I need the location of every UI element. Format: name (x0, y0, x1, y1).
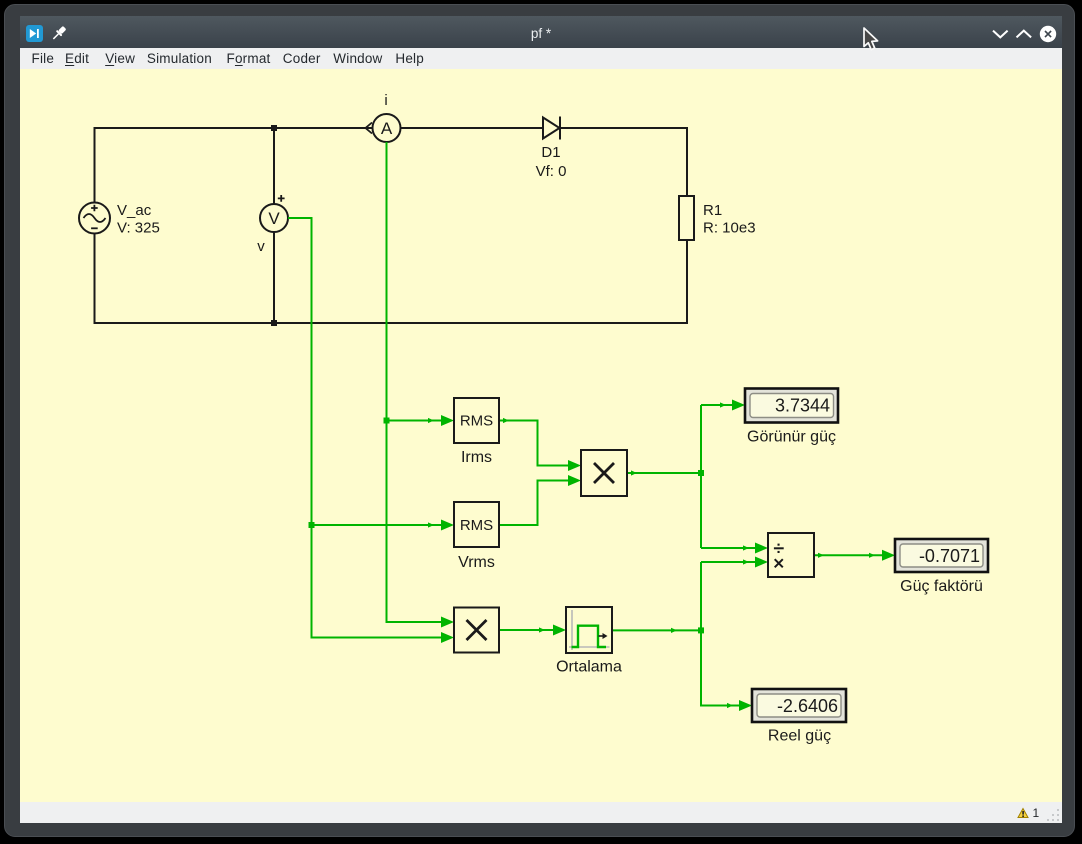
svg-text:3.7344: 3.7344 (775, 396, 830, 416)
svg-text:R1: R1 (703, 202, 722, 219)
svg-text:D1: D1 (541, 144, 560, 161)
svg-text:Vf: 0: Vf: 0 (536, 163, 567, 180)
svg-text:-0.7071: -0.7071 (919, 546, 980, 566)
svg-text:A: A (381, 119, 393, 138)
svg-text:Vrms: Vrms (458, 554, 495, 571)
svg-text:Ortalama: Ortalama (556, 659, 622, 676)
svg-text:V: 325: V: 325 (117, 220, 160, 237)
svg-text:Görünür güç: Görünür güç (747, 429, 836, 446)
svg-text:V_ac: V_ac (117, 202, 152, 219)
svg-text:Irms: Irms (461, 449, 492, 466)
svg-text:v: v (257, 238, 265, 255)
svg-text:RMS: RMS (460, 517, 493, 534)
svg-text:R: 10e3: R: 10e3 (703, 220, 756, 237)
svg-text:Güç faktörü: Güç faktörü (900, 578, 983, 595)
svg-text:RMS: RMS (460, 413, 493, 430)
svg-text:Reel güç: Reel güç (768, 728, 831, 745)
svg-text:1: 1 (1033, 806, 1040, 820)
svg-text:-2.6406: -2.6406 (777, 696, 838, 716)
svg-text:i: i (384, 92, 387, 109)
svg-text:V: V (268, 209, 280, 228)
